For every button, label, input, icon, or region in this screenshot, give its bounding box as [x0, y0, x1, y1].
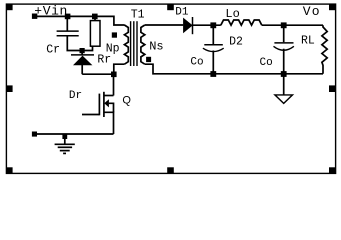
svg-text:Co: Co — [260, 57, 273, 69]
svg-text:RL: RL — [301, 34, 315, 47]
svg-text:Vo: Vo — [303, 4, 321, 19]
svg-text:D2: D2 — [229, 36, 243, 49]
svg-text:Q: Q — [122, 94, 131, 106]
svg-text:+Vin: +Vin — [34, 4, 68, 19]
svg-text:Ns: Ns — [149, 40, 163, 54]
svg-text:Cr: Cr — [46, 44, 60, 57]
svg-text:Rr: Rr — [97, 53, 111, 66]
svg-text:T1: T1 — [131, 8, 145, 21]
svg-text:Lo: Lo — [225, 7, 239, 21]
svg-text:Co: Co — [190, 56, 203, 68]
svg-text:D1: D1 — [175, 6, 189, 18]
svg-text:Dr: Dr — [69, 90, 82, 102]
